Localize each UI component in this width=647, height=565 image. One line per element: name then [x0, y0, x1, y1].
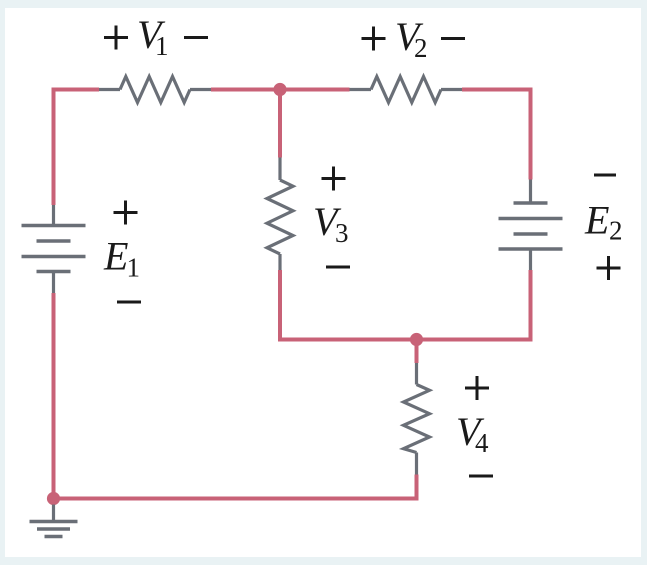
- ground: [30, 505, 78, 537]
- label E1 minus: [117, 301, 141, 304]
- label V3 plus: [322, 167, 346, 191]
- svg-text:2: 2: [414, 33, 428, 63]
- label +V2- minus: [441, 37, 465, 40]
- label V3 minus: [326, 266, 350, 269]
- svg-text:4: 4: [475, 428, 489, 458]
- resistor V4: [404, 363, 430, 475]
- resistor V2: [350, 77, 463, 103]
- node junction top (V1/V2/V3): [273, 83, 286, 96]
- svg-text:E: E: [103, 234, 128, 279]
- label E2: [584, 198, 623, 246]
- resistor V3: [267, 158, 293, 271]
- resistor V1: [99, 77, 211, 103]
- wire bottom-middle right segment: [417, 270, 531, 340]
- wire V4 bottom stub: [415, 475, 419, 499]
- svg-text:E: E: [584, 198, 609, 243]
- label V4 minus: [469, 475, 493, 478]
- wire V4 top stub: [415, 340, 419, 364]
- svg-text:2: 2: [609, 216, 623, 246]
- battery E2: [499, 180, 563, 271]
- label V1: [137, 12, 169, 61]
- label V3: [313, 199, 349, 248]
- wire top middle: [211, 88, 350, 92]
- wire middle vertical upper: [278, 90, 282, 158]
- battery E1: [22, 205, 86, 293]
- label V4 plus: [465, 376, 489, 400]
- label E2 minus: [594, 174, 616, 177]
- wire left vertical upper: [52, 90, 56, 206]
- wire middle vertical lower with corner: [280, 270, 417, 340]
- wire top right with corner: [462, 90, 531, 180]
- node junction bottom middle (V3/E2/V4): [410, 333, 423, 346]
- label E1: [103, 234, 140, 283]
- label V2: [395, 14, 428, 63]
- wire bottom horizontal: [54, 497, 419, 501]
- label E2 plus: [597, 256, 621, 280]
- node junction ground: [47, 492, 60, 505]
- label +V1- minus: [184, 36, 208, 39]
- wire left vertical lower: [52, 293, 56, 499]
- svg-text:1: 1: [155, 31, 169, 61]
- label +V1- plus: [104, 26, 128, 50]
- label V4: [456, 409, 489, 458]
- svg-text:3: 3: [335, 218, 349, 248]
- label E1 plus: [114, 201, 138, 225]
- wire top-left horizontal: [54, 90, 100, 92]
- label +V2- plus: [362, 27, 386, 51]
- svg-text:1: 1: [127, 253, 141, 283]
